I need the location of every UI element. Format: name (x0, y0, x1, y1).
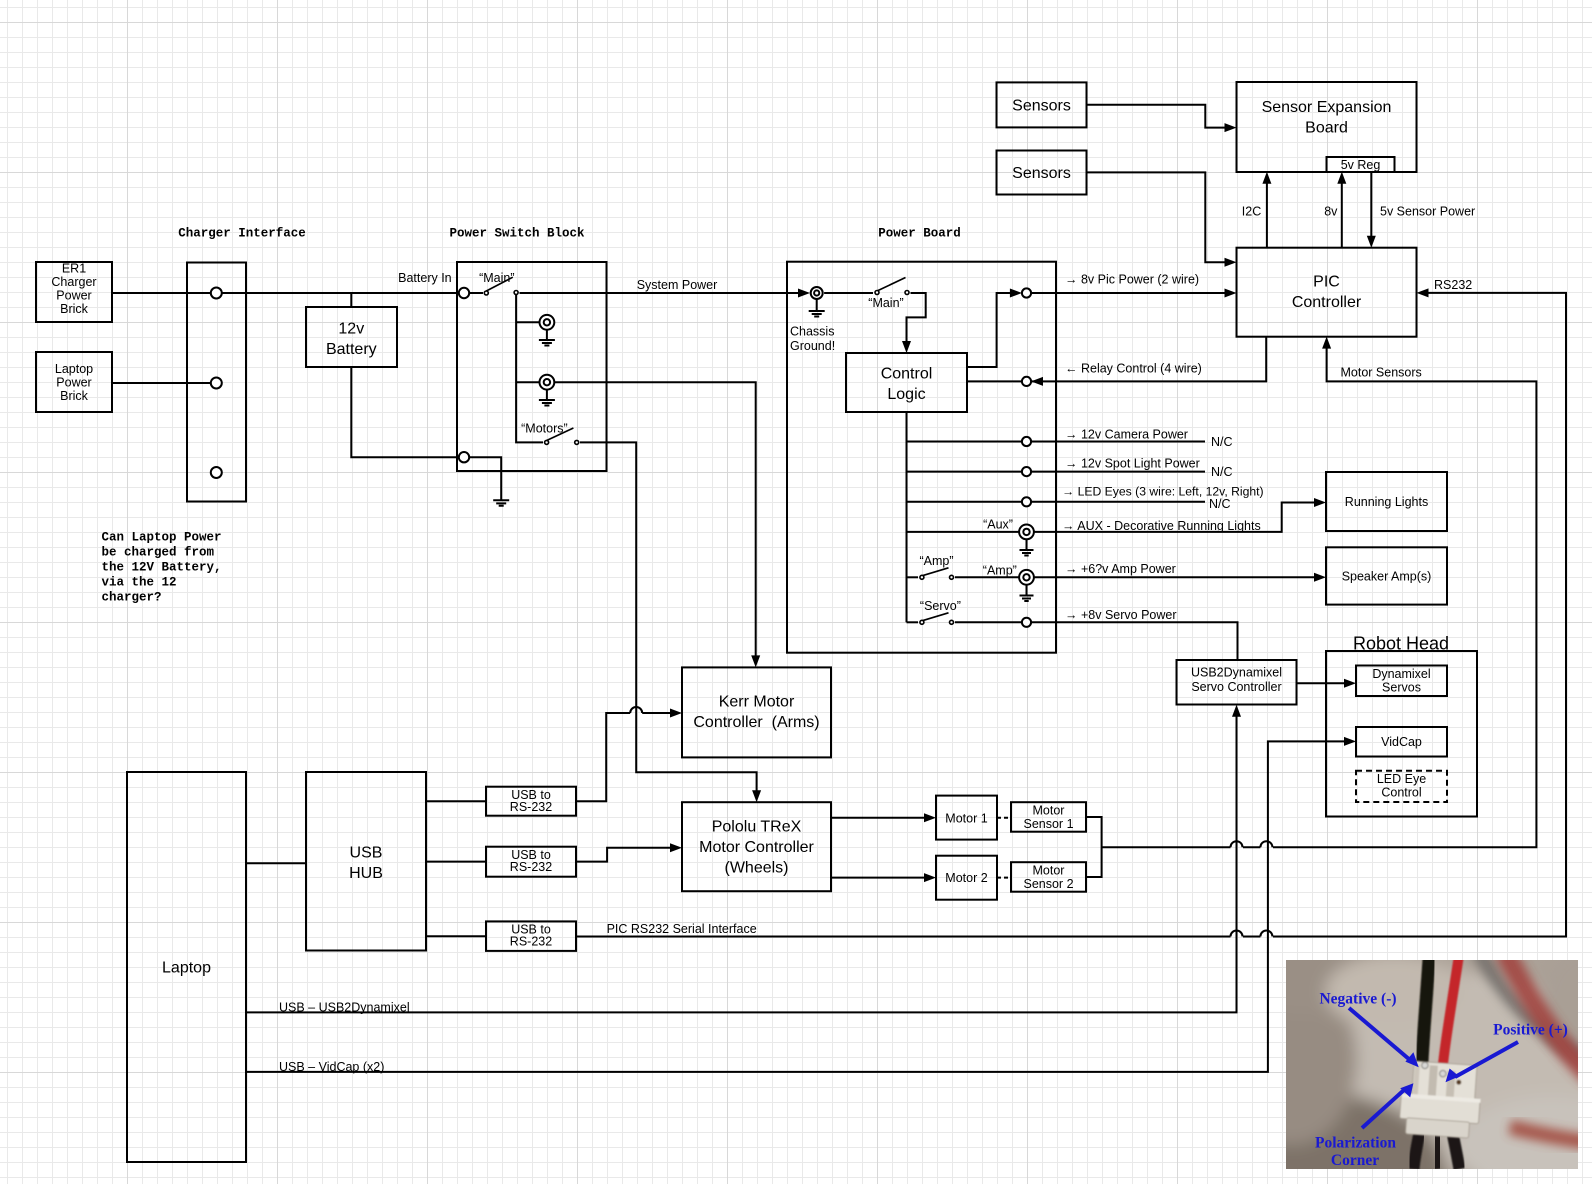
svg-text:Corner: Corner (1331, 1152, 1379, 1169)
svg-text:Running Lights: Running Lights (1345, 495, 1428, 509)
svg-text:charger?: charger? (102, 591, 162, 605)
svg-text:“Amp”: “Amp” (919, 554, 953, 568)
svg-text:→ 12v Spot Light Power: → 12v Spot Light Power (1065, 457, 1200, 471)
svg-text:Servos: Servos (1382, 681, 1421, 695)
svg-text:RS-232: RS-232 (510, 800, 552, 814)
svg-text:← Relay Control (4 wire): ← Relay Control (4 wire) (1065, 362, 1202, 376)
svg-text:Positive (+): Positive (+) (1493, 1021, 1568, 1038)
svg-text:System Power: System Power (637, 278, 718, 292)
svg-text:Sensor Expansion: Sensor Expansion (1262, 99, 1392, 116)
svg-text:Sensor 1: Sensor 1 (1023, 817, 1073, 831)
svg-text:5v Reg: 5v Reg (1341, 158, 1381, 172)
svg-text:12v: 12v (338, 321, 364, 338)
svg-text:“Servo”: “Servo” (920, 599, 961, 613)
svg-text:Sensor 2: Sensor 2 (1023, 877, 1073, 891)
svg-text:Servo Controller: Servo Controller (1191, 680, 1281, 694)
svg-text:Logic: Logic (887, 386, 925, 403)
svg-text:“Main”: “Main” (479, 271, 514, 285)
svg-text:Power Switch Block: Power Switch Block (449, 226, 585, 240)
svg-text:Brick: Brick (60, 389, 89, 403)
svg-text:PIC: PIC (1313, 273, 1340, 290)
svg-text:8v: 8v (1324, 205, 1338, 219)
svg-text:→ 8v Pic Power (2 wire): → 8v Pic Power (2 wire) (1065, 272, 1199, 286)
svg-text:USB – VidCap (x2): USB – VidCap (x2) (279, 1060, 384, 1074)
svg-text:Motor Controller: Motor Controller (699, 839, 814, 856)
svg-text:N/C: N/C (1211, 465, 1233, 479)
svg-text:Dynamixel: Dynamixel (1372, 667, 1430, 681)
svg-text:RS232: RS232 (1434, 278, 1472, 292)
svg-text:Motor: Motor (1033, 804, 1065, 818)
svg-text:VidCap: VidCap (1381, 735, 1422, 749)
svg-text:Board: Board (1305, 120, 1348, 137)
svg-text:Brick: Brick (60, 302, 89, 316)
svg-text:Control: Control (1381, 786, 1421, 800)
svg-text:“Aux”: “Aux” (983, 518, 1013, 532)
svg-text:be charged from: be charged from (102, 546, 215, 560)
svg-text:Chassis: Chassis (790, 325, 834, 339)
svg-text:→ AUX - Decorative Running Lig: → AUX - Decorative Running Lights (1062, 519, 1261, 533)
svg-text:PIC RS232 Serial Interface: PIC RS232 Serial Interface (607, 922, 757, 936)
svg-text:Controller: Controller (1292, 294, 1362, 311)
svg-text:N/C: N/C (1209, 497, 1231, 511)
svg-text:I2C: I2C (1242, 204, 1261, 218)
svg-text:“Main”: “Main” (868, 296, 903, 310)
svg-text:Controller (Arms): Controller (Arms) (693, 714, 819, 731)
svg-text:→ +6?v Amp Power: → +6?v Amp Power (1065, 562, 1176, 576)
svg-text:ER1: ER1 (62, 262, 86, 276)
svg-text:Charger Interface: Charger Interface (178, 226, 306, 240)
svg-text:USB – USB2Dynamixel: USB – USB2Dynamixel (279, 1000, 410, 1014)
svg-text:Pololu TReX: Pololu TReX (712, 819, 802, 836)
svg-text:Polarization: Polarization (1315, 1135, 1396, 1152)
svg-text:the 12V Battery,: the 12V Battery, (102, 561, 222, 575)
svg-text:Laptop: Laptop (162, 960, 211, 977)
svg-text:USB2Dynamixel: USB2Dynamixel (1191, 666, 1282, 680)
svg-text:Motor 2: Motor 2 (945, 871, 987, 885)
svg-text:→ +8v Servo Power: → +8v Servo Power (1065, 608, 1177, 622)
svg-text:Power Board: Power Board (878, 226, 961, 240)
svg-text:Negative (-): Negative (-) (1319, 991, 1396, 1008)
svg-text:→ LED Eyes (3 wire: Left, 12v,: → LED Eyes (3 wire: Left, 12v, Right) (1062, 485, 1264, 499)
svg-text:Sensors: Sensors (1012, 165, 1071, 182)
svg-text:Ground!: Ground! (790, 339, 835, 353)
svg-text:via the 12: via the 12 (102, 576, 177, 590)
svg-text:Kerr Motor: Kerr Motor (719, 694, 795, 711)
svg-text:USB: USB (350, 845, 383, 862)
svg-text:HUB: HUB (349, 865, 383, 882)
svg-text:(Wheels): (Wheels) (724, 860, 788, 877)
svg-text:Power: Power (56, 289, 91, 303)
svg-text:Motor: Motor (1033, 864, 1065, 878)
svg-text:LED Eye: LED Eye (1377, 772, 1426, 786)
svg-text:Sensors: Sensors (1012, 98, 1071, 115)
svg-text:“Amp”: “Amp” (983, 564, 1017, 578)
svg-text:5v Sensor Power: 5v Sensor Power (1380, 205, 1475, 219)
svg-text:Motor 1: Motor 1 (945, 811, 987, 825)
svg-text:Motor Sensors: Motor Sensors (1341, 366, 1422, 380)
svg-text:RS-232: RS-232 (510, 935, 552, 949)
svg-text:Control: Control (881, 365, 933, 382)
svg-text:Battery: Battery (326, 341, 377, 358)
svg-text:Speaker Amp(s): Speaker Amp(s) (1342, 570, 1432, 584)
svg-text:Battery In: Battery In (398, 271, 452, 285)
svg-text:“Motors”: “Motors” (521, 422, 568, 436)
svg-text:→ 12v Camera Power: → 12v Camera Power (1065, 428, 1188, 442)
svg-text:N/C: N/C (1211, 435, 1233, 449)
svg-text:Robot Head: Robot Head (1353, 634, 1449, 654)
svg-text:Laptop: Laptop (55, 362, 93, 376)
svg-text:Power: Power (56, 376, 91, 390)
svg-text:Charger: Charger (51, 275, 96, 289)
svg-text:Can Laptop Power: Can Laptop Power (102, 531, 222, 545)
svg-text:RS-232: RS-232 (510, 860, 552, 874)
